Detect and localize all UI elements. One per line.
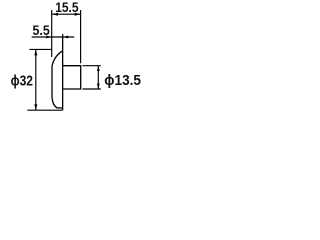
arrowhead phi32 top [34, 49, 37, 55]
svg-text:5.5: 5.5 [33, 22, 50, 38]
disc outline: left profile [52, 51, 63, 108]
cylinder outline [63, 66, 81, 89]
svg-text:ϕ13.5: ϕ13.5 [104, 72, 141, 89]
arrowhead 15.5 right [75, 13, 81, 16]
svg-text:ϕ32: ϕ32 [11, 73, 33, 90]
phi13.5 top ext line [83, 65, 101, 67]
arrowhead 15.5 left [52, 13, 58, 16]
disc right face [62, 34, 64, 110]
phi13.5 bottom ext line [83, 88, 101, 90]
phi13.5 dim line [97, 66, 99, 89]
arrowhead 5.5 left (outside, pointing right) [46, 36, 51, 39]
ext line left (15.5/5.5) [51, 10, 53, 57]
dim line 5.5 [32, 36, 74, 38]
phi32 dim line [35, 49, 37, 110]
arrowhead phi13.5 bottom [97, 84, 100, 89]
ext line right 15.5 [80, 10, 82, 63]
phi32 top ext line [30, 48, 52, 50]
svg-text:15.5: 15.5 [55, 0, 79, 15]
arrowhead 5.5 right (outside, pointing left) [63, 36, 68, 39]
arrowhead phi13.5 top [97, 66, 100, 71]
dim line 15.5 [52, 13, 81, 15]
phi32 bottom ext line [27, 109, 62, 111]
arrowhead phi32 bottom [34, 104, 37, 110]
